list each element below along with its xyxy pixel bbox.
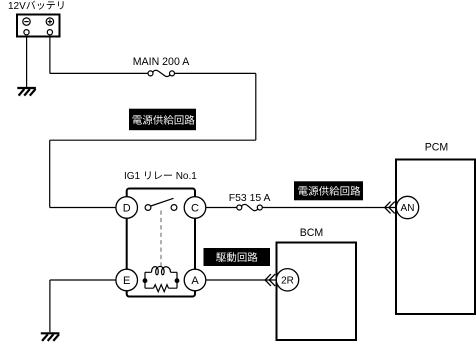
svg-text:AN: AN [401,203,415,214]
svg-text:E: E [123,275,130,287]
svg-text:12V: 12V [8,1,26,12]
svg-text:PCM: PCM [425,142,449,154]
svg-text:A: A [191,275,199,287]
svg-text:D: D [123,202,131,214]
svg-text:IG1: IG1 [124,171,141,182]
svg-text:BCM: BCM [300,227,324,239]
svg-text:MAIN 200 A: MAIN 200 A [133,56,190,68]
svg-text:2R: 2R [281,275,294,286]
svg-text:C: C [191,202,199,214]
svg-text:F53 15 A: F53 15 A [229,193,271,204]
svg-text:No.1: No.1 [176,171,198,182]
